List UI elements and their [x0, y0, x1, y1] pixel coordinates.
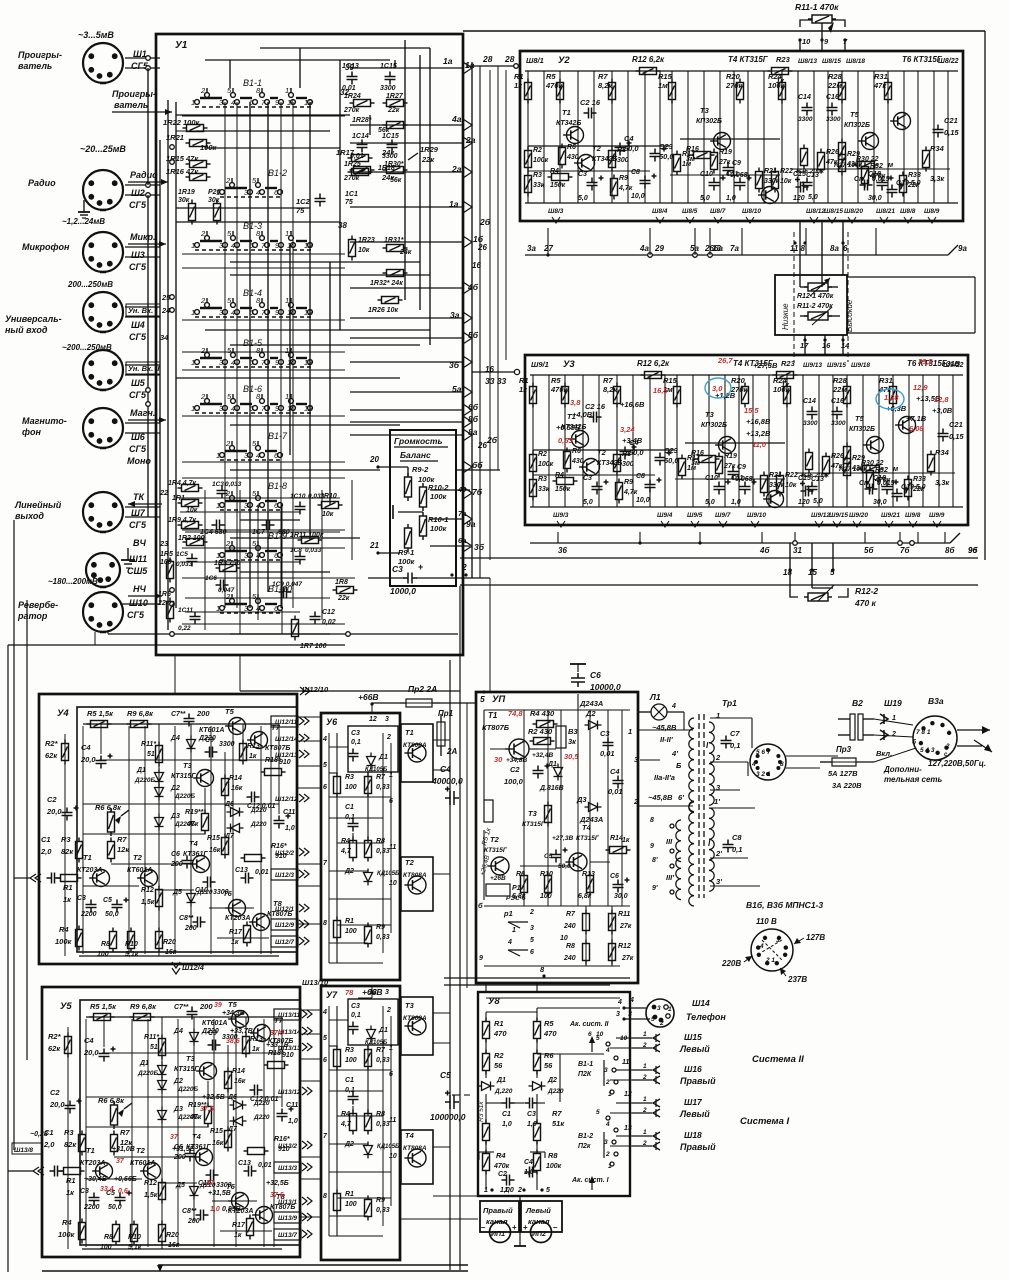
svg-text:56: 56 [544, 1061, 553, 1070]
transistor T7 (У5) [250, 1025, 270, 1042]
resistor 1R5 100 [167, 558, 174, 583]
svg-text:С4: С4 [524, 1159, 533, 1166]
svg-text:100к: 100к [768, 81, 786, 90]
svg-text:Ш12/3: Ш12/3 [275, 872, 294, 879]
svg-text:У3: У3 [563, 359, 575, 370]
svg-text:20,0: 20,0 [49, 1100, 65, 1109]
svg-text:430: 430 [571, 458, 584, 465]
wire У3 column x398 [922, 375, 924, 507]
svg-text:R13: R13 [582, 871, 595, 878]
wire У7 verticals [336, 1006, 338, 1236]
svg-text:Ш12/9: Ш12/9 [275, 922, 294, 929]
svg-text:0,047: 0,047 [218, 587, 235, 594]
svg-text:R6: R6 [572, 448, 581, 455]
svg-text:C3: C3 [578, 171, 587, 178]
svg-text:Т6: Т6 [223, 889, 233, 898]
resistor R3 100 (У6) [334, 773, 341, 798]
svg-text:1С15: 1С15 [382, 133, 399, 140]
svg-text:Д220: Д220 [253, 1114, 270, 1121]
svg-text:6,08: 6,08 [909, 424, 924, 433]
svg-text:33 33: 33 33 [485, 376, 507, 386]
svg-text:36: 36 [558, 546, 567, 555]
svg-text:С6: С6 [590, 670, 601, 680]
capacitor C3 2200 (У5) [89, 1193, 100, 1206]
wire UP internals [484, 709, 630, 711]
svg-text:6: 6 [530, 949, 534, 956]
svg-text:Д.816В: Д.816В [539, 785, 564, 792]
svg-text:1,0: 1,0 [500, 1187, 510, 1194]
resistor R17 1м (У2) [674, 151, 681, 176]
svg-text:КТ601А: КТ601А [199, 727, 224, 734]
connector Sh14 telephone [646, 999, 674, 1027]
connector Sh18 [632, 1135, 652, 1137]
svg-text:R9: R9 [624, 479, 633, 486]
svg-text:2: 2 [642, 1042, 647, 1049]
wire У2 column x338 [857, 71, 859, 203]
pot R6 6,8к (У4) [108, 808, 115, 836]
sub-box caps (У6) [348, 726, 398, 772]
transistor T1 (У3) [568, 431, 588, 448]
svg-text:240: 240 [563, 923, 576, 930]
svg-text:+32,4В: +32,4В [532, 752, 553, 759]
wire left vertical x8 [7, 645, 9, 1272]
winding III small [676, 820, 681, 862]
input chevron (У5) [33, 1167, 44, 1175]
wire У2 column x140 [659, 71, 661, 203]
svg-text:Микр.: Микр. [130, 232, 156, 242]
svg-text:С7: С7 [730, 729, 740, 738]
long line y558 [460, 557, 978, 559]
wires tone to U3 [804, 335, 806, 355]
svg-text:R7: R7 [120, 1128, 130, 1137]
svg-text:С9: С9 [205, 737, 214, 744]
svg-text:30,0: 30,0 [614, 893, 628, 900]
wire bus under tone to UP [489, 578, 491, 692]
capacitor C6 10000,0 [571, 673, 585, 687]
transistor T7 (У4) [247, 732, 267, 749]
svg-text:22к: 22к [337, 595, 350, 602]
svg-text:С2: С2 [498, 1171, 507, 1178]
svg-text:33к: 33к [533, 182, 545, 189]
svg-text:R7: R7 [376, 1047, 386, 1054]
svg-text:4а: 4а [451, 114, 462, 124]
svg-text:R7: R7 [598, 72, 608, 81]
svg-text:5: 5 [546, 1187, 550, 1194]
resistor R3 33к (У2) [525, 172, 532, 197]
svg-text:Ш14: Ш14 [692, 998, 710, 1008]
svg-text:R1: R1 [519, 376, 529, 385]
svg-text:Ш9/1: Ш9/1 [531, 360, 549, 369]
wire UP to U8 top [485, 983, 487, 992]
resistor R28 22м (У3) [844, 383, 851, 408]
resistor R7 0,33 (У6) [365, 773, 372, 798]
annotation circle 1,28 [876, 389, 904, 409]
resistor 1R26 10к [378, 297, 403, 304]
svg-text:1,28: 1,28 [884, 393, 899, 402]
svg-text:22к: 22к [421, 155, 435, 164]
svg-text:R2: R2 [538, 451, 547, 458]
svg-text:R8: R8 [101, 941, 110, 948]
resistor R4 100к (У5) [79, 1219, 86, 1244]
svg-text:1R6: 1R6 [158, 591, 171, 598]
svg-text:10к: 10к [186, 507, 198, 514]
svg-text:В3а: В3а [928, 696, 944, 706]
transistor T1 (У5) [92, 1163, 112, 1180]
wire U1 rows [176, 114, 350, 116]
switch block В1-7 [216, 431, 288, 460]
svg-text:1: 1 [191, 404, 195, 413]
svg-text:КТ203А: КТ203А [77, 867, 102, 874]
wire UP to Tr1 primary [638, 729, 693, 731]
svg-text:Ш13/3: Ш13/3 [278, 1165, 297, 1172]
capacitor Cp 0,015 (У2) [860, 180, 873, 191]
svg-text:20,0: 20,0 [46, 807, 62, 816]
capacitor C21 0,15 (У2) [933, 125, 944, 138]
hline right of tone box [847, 276, 975, 278]
svg-text:12: 12 [304, 308, 313, 317]
svg-text:Д220: Д220 [250, 821, 267, 828]
svg-text:2: 2 [225, 176, 231, 185]
svg-text:р1: р1 [503, 909, 513, 918]
resistor R20 30к [214, 200, 221, 225]
svg-text:СГ5: СГ5 [129, 262, 147, 272]
svg-text:0,02: 0,02 [322, 619, 336, 626]
svg-text:3,3к: 3,3к [935, 478, 950, 487]
capacitor 1C15b 3300 [387, 140, 398, 153]
wire long verticals mid [449, 660, 451, 1270]
unit У6 box [321, 713, 400, 980]
svg-text:R14: R14 [232, 1068, 245, 1075]
svg-text:4: 4 [231, 404, 235, 413]
svg-text:Р1: Р1 [512, 885, 521, 892]
capacitor C10 5,0 (У3) [714, 480, 731, 495]
svg-text:910: 910 [282, 1052, 294, 1059]
svg-text:2б: 2б [479, 217, 491, 227]
svg-text:Ш3: Ш3 [131, 250, 145, 260]
wire У2 column x428 [947, 71, 949, 203]
svg-text:1R5: 1R5 [160, 551, 173, 558]
svg-text:37: 37 [170, 1134, 179, 1141]
svg-text:R14: R14 [610, 835, 623, 842]
wire У4 top rail [83, 723, 279, 725]
resistor R31 47к (У3) [890, 383, 897, 408]
svg-text:Ш8/4: Ш8/4 [652, 208, 668, 215]
wire У3 column x244 [768, 375, 770, 507]
svg-text:1С11: 1С11 [178, 607, 193, 614]
svg-text:У6: У6 [326, 717, 338, 727]
capacitor C12 0,02 [310, 612, 321, 625]
resistor R8 100 (У4) [110, 928, 117, 953]
svg-text:Ш9/5: Ш9/5 [687, 512, 703, 519]
svg-text:Ш8/15: Ш8/15 [824, 208, 843, 215]
svg-text:Ш12/12: Ш12/12 [275, 796, 298, 803]
svg-text:3': 3' [716, 877, 722, 886]
svg-text:Левый: Левый [679, 1044, 710, 1054]
transistor box Т4 КТ808А (У7) [401, 1130, 433, 1184]
svg-text:Высокие: Высокие [845, 299, 854, 332]
wire У2 column x24 [543, 71, 545, 203]
svg-text:Т2: Т2 [490, 835, 500, 844]
svg-text:1R15 47к: 1R15 47к [166, 154, 199, 163]
svg-text:СГ5: СГ5 [129, 444, 147, 454]
svg-text:910: 910 [279, 759, 291, 766]
resistor R9 4,7к (У2) [611, 175, 618, 200]
svg-text:220В: 220В [721, 959, 741, 968]
svg-text:Левый: Левый [679, 1109, 710, 1119]
connector Sh17 [632, 1102, 652, 1104]
transistor T2 (У3) [579, 459, 599, 476]
wires R11-1 into U2 [799, 40, 801, 51]
resistor R25 200к (У2) [801, 145, 808, 170]
resistor R19** 47к (У4) [202, 810, 209, 835]
svg-text:КП302Б: КП302Б [701, 422, 727, 429]
svg-text:Магнито-: Магнито- [22, 416, 67, 426]
svg-text:2: 2 [200, 392, 206, 401]
svg-text:Универсаль-: Универсаль- [5, 314, 62, 324]
diode D1 D220B (У4) [155, 769, 164, 786]
svg-text:50,0: 50,0 [105, 911, 119, 918]
capacitor C12 0,01 (У5) [250, 1085, 263, 1096]
resistor 1R27 22к [383, 100, 408, 107]
svg-text:КП302Б: КП302Б [844, 122, 870, 129]
svg-text:Ш13/11: Ш13/11 [278, 1012, 301, 1019]
svg-text:Ш8/18: Ш8/18 [846, 58, 865, 65]
svg-text:62к: 62к [48, 1044, 61, 1053]
svg-text:КТ808А: КТ808А [403, 872, 427, 879]
svg-text:У2: У2 [558, 55, 570, 66]
svg-text:Ш9/20: Ш9/20 [849, 512, 868, 519]
svg-text:Ш15: Ш15 [684, 1032, 702, 1042]
svg-text:R28: R28 [833, 376, 848, 385]
svg-text:237В: 237В [787, 975, 807, 984]
svg-text:Ш16: Ш16 [684, 1064, 702, 1074]
svg-text:Д220: Д220 [547, 1088, 564, 1095]
resistor R4 4,7 (У7) [350, 1110, 357, 1135]
svg-text:0,01: 0,01 [600, 749, 615, 758]
wire У2 column x354 [873, 71, 875, 203]
wire У3 column x8 [532, 375, 534, 507]
resistor 1R11 100к [298, 537, 323, 544]
resistor R29 430к (У3) [844, 455, 851, 480]
resistor R6 430 (У2) [559, 144, 566, 169]
svg-text:1,5к: 1,5к [144, 1192, 158, 1199]
wire Sh7 to U1 [125, 506, 160, 508]
tone wires [799, 275, 801, 287]
svg-text:В2: В2 [852, 698, 863, 708]
wires U2 to tone [799, 221, 801, 275]
svg-text:1: 1 [643, 1063, 647, 1070]
svg-text:10,0: 10,0 [631, 193, 645, 200]
svg-text:0,01: 0,01 [350, 153, 364, 160]
wire У2 column x228 [747, 71, 749, 203]
bus under U3 [530, 542, 950, 544]
svg-text:П2К: П2К [578, 1071, 592, 1078]
svg-text:12: 12 [304, 98, 313, 107]
resistor R26 47к (У2) [818, 149, 825, 174]
svg-text:100: 100 [540, 893, 552, 900]
svg-text:3: 3 [385, 989, 389, 996]
svg-text:КД105Б: КД105Б [377, 1144, 400, 1150]
svg-text:R17: R17 [682, 151, 696, 158]
wire У3 column x322 [846, 375, 848, 507]
svg-text:Ш18: Ш18 [684, 1130, 702, 1140]
svg-text:1к: 1к [514, 81, 523, 90]
wire vol to bus [430, 489, 470, 491]
svg-text:1: 1 [716, 711, 720, 720]
capacitor 1C8 0,033 [295, 552, 306, 565]
svg-text:1к: 1к [231, 939, 239, 946]
switch block В1-9 [216, 531, 287, 560]
svg-text:Т1: Т1 [86, 1146, 95, 1155]
svg-text:Громкость: Громкость [394, 436, 443, 446]
svg-text:У5: У5 [60, 1001, 72, 1012]
capacitor C13 0,01 (У4) [241, 873, 254, 884]
svg-text:ИП2: ИП2 [532, 1231, 546, 1238]
svg-text:Д1: Д1 [496, 1077, 506, 1084]
capacitor 1C4 680 [212, 520, 225, 531]
resistor R24 100к (У3) [784, 383, 791, 408]
wire Sh1 to U1 [125, 57, 160, 59]
svg-text:3А 220В: 3А 220В [832, 781, 862, 790]
connector V3a pins [947, 731, 951, 735]
connector Sh15 [632, 1037, 652, 1039]
svg-text:30,0: 30,0 [868, 195, 882, 202]
wire У5 bottom rail [82, 1248, 282, 1250]
svg-text:1R2 100: 1R2 100 [178, 535, 205, 542]
svg-text:100к: 100к [430, 524, 448, 533]
svg-text:С5: С5 [103, 897, 112, 904]
wire Sh5 to U1 [125, 364, 160, 366]
capacitor C15 120 (У3) [807, 482, 818, 495]
svg-text:~1,2...24мВ: ~1,2...24мВ [62, 217, 105, 226]
svg-text:1R23: 1R23 [358, 237, 375, 244]
tone control box [775, 275, 847, 335]
resistor 1R28* 56к [383, 122, 408, 129]
svg-text:0,1: 0,1 [351, 1012, 361, 1019]
svg-text:Ш9/10: Ш9/10 [747, 512, 766, 519]
svg-text:R33: R33 [908, 172, 921, 179]
svg-text:11: 11 [389, 1117, 396, 1124]
svg-text:2: 2 [200, 86, 206, 95]
wire У3 column x40 [564, 375, 566, 507]
svg-text:+0,66Б: +0,66Б [114, 1176, 137, 1183]
unit У4 box [39, 694, 297, 964]
capacitor 1C7 680 [262, 520, 275, 531]
capacitor C9 0,068 (У2) [723, 163, 734, 176]
resistor R6 430 (У3) [564, 448, 571, 473]
svg-text:Ш9/15: Ш9/15 [827, 362, 846, 369]
svg-text:1,0: 1,0 [285, 825, 295, 832]
svg-text:ТК: ТК [133, 492, 145, 502]
svg-text:2: 2 [605, 1151, 610, 1158]
svg-text:4: 4 [256, 188, 260, 197]
svg-text:IIа-II'а: IIа-II'а [654, 773, 675, 782]
wire U7 bottom link [400, 1218, 478, 1220]
svg-text:28: 28 [504, 54, 515, 64]
svg-text:5б: 5б [468, 330, 479, 340]
svg-text:С4: С4 [610, 767, 620, 776]
svg-text:1000,0: 1000,0 [390, 586, 416, 596]
right vertical bus [984, 31, 986, 560]
svg-text:1: 1 [191, 358, 195, 367]
svg-text:3: 3 [604, 1067, 608, 1074]
capacitor C23 50,0 (У2) [650, 147, 667, 162]
wire У3 column x140 [664, 375, 666, 507]
resistor R14 16к (У4) [222, 775, 229, 800]
resistor R14 1k (UP) [606, 847, 631, 854]
svg-text:R2: R2 [533, 147, 542, 154]
svg-text:4: 4 [759, 943, 764, 950]
transistor Т3 КТ808А (У7) [404, 1017, 426, 1035]
svg-text:1к: 1к [519, 385, 528, 394]
svg-text:Ш5: Ш5 [131, 378, 146, 388]
svg-text:R9 6,8к: R9 6,8к [127, 709, 154, 718]
svg-text:7а: 7а [730, 244, 739, 253]
svg-text:+32,5В: +32,5В [202, 1094, 225, 1101]
resistor R18* 910 (У5) [264, 1062, 289, 1069]
svg-text:R3: R3 [64, 1128, 74, 1137]
resistor R32 470к (У3) [867, 467, 874, 492]
svg-text:8: 8 [323, 920, 327, 927]
svg-text:1к: 1к [622, 837, 630, 844]
svg-text:1R8: 1R8 [335, 579, 348, 586]
svg-text:1R30*: 1R30* [384, 161, 404, 168]
svg-text:5: 5 [323, 762, 327, 769]
capacitor C18 30,0 (У3) [882, 480, 899, 495]
svg-text:R16*: R16* [274, 1136, 290, 1143]
svg-text:~45,8В: ~45,8В [648, 793, 673, 802]
svg-text:КП302Б: КП302Б [849, 426, 875, 433]
svg-text:КТ807Б: КТ807Б [265, 745, 290, 752]
svg-text:R5 1,5к: R5 1,5к [87, 709, 114, 718]
svg-text:300: 300 [617, 157, 629, 164]
svg-text:7б: 7б [900, 546, 910, 555]
svg-text:21: 21 [369, 541, 379, 550]
svg-text:Т1: Т1 [562, 108, 571, 117]
svg-text:Т3: Т3 [700, 106, 710, 115]
resistor 1R2 100 [183, 539, 208, 546]
svg-text:+3,4В: +3,4В [622, 436, 643, 445]
svg-text:470 к: 470 к [854, 598, 877, 608]
capacitor 1C9 0,047 [279, 587, 292, 598]
svg-text:2: 2 [517, 1187, 522, 1194]
svg-text:R1: R1 [494, 1019, 504, 1028]
svg-text:R12: R12 [141, 887, 154, 894]
resistor R21 330к (У3) [761, 472, 768, 497]
resistor R20 16к (У4) [156, 928, 163, 953]
svg-text:Левый: Левый [525, 1206, 551, 1215]
wire У2 column x262 [781, 71, 783, 203]
svg-text:СГ5: СГ5 [127, 610, 145, 620]
diode D6 D220 (У4) [227, 808, 244, 817]
svg-text:6б: 6б [468, 402, 479, 412]
wire У3 gnd rail [530, 506, 963, 508]
svg-text:R9-1: R9-1 [398, 548, 414, 557]
wire U4-U6 links [297, 716, 321, 718]
resistor 1R17 24к [348, 155, 373, 162]
svg-text:4: 4 [322, 736, 327, 743]
svg-text:С14: С14 [803, 398, 816, 405]
svg-text:5,1к: 5,1к [125, 951, 139, 958]
svg-text:Ш9/15: Ш9/15 [829, 512, 848, 519]
resistor R6 56 (U8) [534, 1050, 541, 1075]
resistor R22 10к (У2) [772, 168, 779, 193]
svg-text:+16,8В: +16,8В [746, 417, 771, 426]
resistor R22 10к (У3) [777, 472, 784, 497]
resistor 1R4 4,7к [178, 485, 203, 492]
resistor 1R24 270к [350, 100, 375, 107]
bus chevrons U1 right edge [463, 62, 472, 74]
